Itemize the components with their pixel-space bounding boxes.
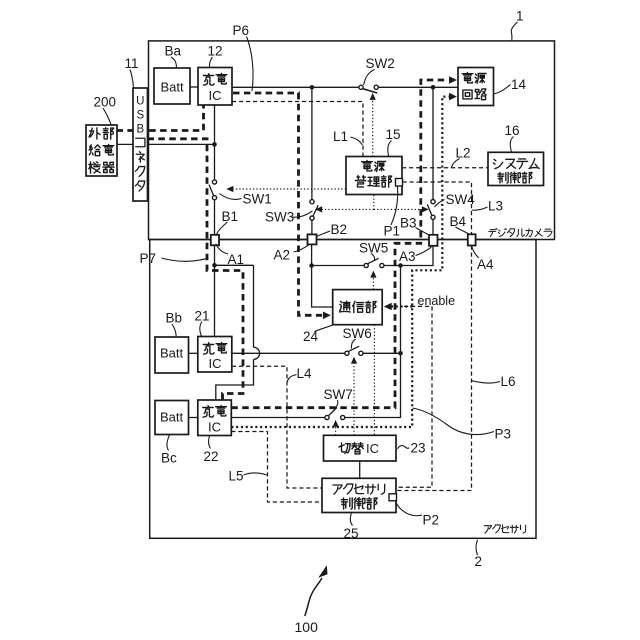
svg-text:Batt: Batt <box>160 410 184 425</box>
svg-text:P7: P7 <box>140 251 157 266</box>
svg-text:12: 12 <box>208 44 223 59</box>
svg-text:200: 200 <box>94 95 117 110</box>
svg-text:L6: L6 <box>501 374 516 389</box>
svg-text:P1: P1 <box>384 224 401 239</box>
svg-text:21: 21 <box>195 309 210 324</box>
svg-text:11: 11 <box>125 56 139 71</box>
svg-text:L2: L2 <box>456 146 471 161</box>
svg-text:L5: L5 <box>229 469 244 484</box>
svg-text:A3: A3 <box>399 249 416 264</box>
svg-text:SW5: SW5 <box>359 241 388 256</box>
svg-text:IC: IC <box>209 356 222 371</box>
svg-text:22: 22 <box>204 449 219 464</box>
svg-text:2: 2 <box>475 554 483 569</box>
svg-text:A2: A2 <box>274 248 291 263</box>
svg-text:L3: L3 <box>488 199 503 214</box>
svg-text:Batt: Batt <box>160 80 184 95</box>
svg-text:Bb: Bb <box>166 311 183 326</box>
svg-text:U: U <box>136 96 144 108</box>
svg-text:15: 15 <box>386 127 401 142</box>
svg-text:B: B <box>136 124 144 136</box>
svg-text:P3: P3 <box>495 427 512 442</box>
svg-text:25: 25 <box>344 526 359 541</box>
svg-text:Bc: Bc <box>161 451 177 466</box>
svg-text:23: 23 <box>411 441 426 456</box>
svg-text:SW2: SW2 <box>366 56 395 71</box>
svg-text:100: 100 <box>295 619 319 635</box>
svg-text:SW3: SW3 <box>265 210 294 225</box>
svg-text:L4: L4 <box>297 366 313 381</box>
svg-text:B4: B4 <box>450 214 467 229</box>
svg-text:Ba: Ba <box>165 44 182 59</box>
svg-text:IC: IC <box>209 88 222 103</box>
svg-text:16: 16 <box>505 123 520 138</box>
svg-text:P2: P2 <box>423 513 440 528</box>
svg-text:S: S <box>136 110 144 122</box>
svg-text:Batt: Batt <box>160 346 184 361</box>
svg-text:SW6: SW6 <box>343 326 372 341</box>
svg-text:P6: P6 <box>233 23 250 38</box>
svg-text:B2: B2 <box>331 222 348 237</box>
svg-text:IC: IC <box>208 420 221 435</box>
svg-text:A1: A1 <box>228 252 245 267</box>
svg-text:A4: A4 <box>477 257 494 272</box>
svg-text:L1: L1 <box>333 129 348 144</box>
svg-text:IC: IC <box>366 441 379 456</box>
svg-text:B3: B3 <box>400 216 417 231</box>
svg-text:B1: B1 <box>222 209 239 224</box>
svg-text:SW1: SW1 <box>243 192 272 207</box>
svg-text:SW4: SW4 <box>446 192 476 207</box>
svg-text:enable: enable <box>418 294 456 308</box>
svg-text:SW7: SW7 <box>324 387 353 402</box>
svg-text:14: 14 <box>511 77 527 92</box>
svg-text:1: 1 <box>516 9 524 24</box>
